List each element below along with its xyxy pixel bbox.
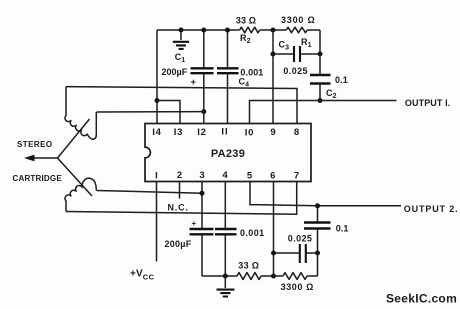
svg-text:R1: R1 (301, 37, 312, 49)
label 0.001 (top) (240, 67, 263, 77)
label R1 (301, 37, 312, 49)
svg-text:7: 7 (294, 171, 299, 182)
svg-text:C3: C3 (279, 40, 290, 52)
label C1 (175, 52, 186, 64)
wire: output 2 line from pin 5 (250, 182, 401, 206)
inductor: cartridge bottom coil (65, 178, 96, 211)
svg-text:OUTPUT 2.: OUTPUT 2. (404, 204, 459, 214)
node: bottom rail dot at pin4/ground (223, 274, 228, 279)
wire: pin 1 to +Vcc (156, 182, 158, 262)
capacitor C2 0.1 plates (310, 75, 331, 84)
label 0.025 (top) (283, 66, 308, 76)
svg-text:3300 Ω: 3300 Ω (281, 15, 316, 25)
node: rail dot at C4 (225, 28, 230, 33)
wire: pin 2 stub N.C. (179, 182, 181, 199)
label OUTPUT 1 (405, 98, 450, 108)
node: bottom rail dot at pin 6 (271, 274, 276, 279)
pin 10 number (245, 128, 255, 139)
wire: C4 / pin 11 vertical (227, 30, 229, 124)
cartridge stylus diagonal (upper) (58, 119, 90, 158)
svg-text:6: 6 (270, 171, 275, 182)
svg-text:STEREO: STEREO (17, 140, 53, 149)
label 200uF (bottom) (165, 239, 192, 249)
svg-text:4: 4 (222, 170, 228, 181)
pin 2 number (177, 170, 182, 181)
node: output 2 dot (315, 203, 320, 208)
svg-text:33 Ω: 33 Ω (236, 16, 256, 26)
capacitor C1 200uF plates (191, 68, 214, 73)
svg-text:SeekIC.com: SeekIC.com (386, 292, 457, 306)
label C3 (279, 40, 290, 52)
label +Vcc (130, 269, 155, 282)
capacitor 0.1 (ch2) plates (304, 223, 331, 229)
svg-text:33 Ω: 33 Ω (238, 260, 259, 270)
wire: 0.1 (ch2) vertical riser (317, 206, 319, 276)
wire: bottom ground rail (202, 275, 318, 277)
pin 14 number (152, 127, 162, 138)
IC U1 PA239 body (145, 124, 311, 182)
wire: C2 vertical (319, 54, 321, 101)
wire: C1 / pin 12 vertical (203, 30, 205, 124)
svg-text:+: + (191, 77, 197, 88)
watermark SeekIC.com (386, 292, 457, 306)
capacitor C3 0.025 plates (294, 46, 300, 62)
svg-text:C2: C2 (326, 88, 337, 100)
svg-text:II: II (221, 127, 228, 138)
label 0.1 (top) (335, 75, 348, 85)
ground (bottom) (217, 276, 235, 297)
wire: C3 horizontal leads (273, 53, 320, 55)
node: output 1 dot at C2 (318, 98, 323, 103)
pin 1 number (155, 170, 158, 181)
inductor: cartridge top coil (65, 87, 96, 140)
resistor R1 3300ohm zigzag (286, 27, 307, 32)
node: pin 6 dot at 0.025 branch (271, 251, 276, 256)
svg-text:I0: I0 (245, 128, 255, 139)
wire C: cartridge to pin 3 node (97, 191, 203, 194)
label CARTRIDGE (13, 174, 63, 183)
resistor 33ohm (ch2) zigzag (237, 273, 261, 280)
svg-text:0.025: 0.025 (288, 234, 313, 244)
pin 12 number (197, 127, 207, 138)
svg-text:3300 Ω: 3300 Ω (281, 282, 314, 292)
node: C3 right dot (318, 52, 323, 57)
label C2 (326, 88, 337, 100)
pin 5 number (247, 171, 253, 182)
wire: R1 right lead down (319, 30, 321, 54)
svg-text:5: 5 (247, 171, 253, 182)
wire B: cartridge to pin 12 node (97, 111, 204, 113)
pin 9 number (270, 127, 275, 138)
op-amp U1 label PA239 (211, 148, 245, 160)
wire: pin 9 vertical (272, 30, 274, 124)
pin 6 number (270, 171, 275, 182)
label 200uF (top) (162, 67, 188, 77)
svg-text:I3: I3 (174, 127, 184, 138)
capacitor 0.025 (ch2) plates (300, 244, 306, 263)
pin 13 number (174, 127, 184, 138)
wire: pin 3 vertical to 200uF (201, 182, 203, 277)
svg-text:0.025: 0.025 (283, 66, 308, 76)
node: rail dot at ground stub (179, 28, 184, 33)
label OUTPUT 2 (404, 204, 459, 214)
svg-text:CARTRIDGE: CARTRIDGE (13, 174, 63, 183)
svg-text:N.C.: N.C. (168, 203, 189, 213)
pin 8 number (294, 127, 299, 138)
capacitor 0.001 (ch2) plates (215, 229, 237, 234)
resistor R2 33ohm zigzag (240, 27, 260, 33)
svg-text:PA239: PA239 (211, 148, 245, 160)
svg-text:+VCC: +VCC (130, 269, 155, 282)
wire: pin 14 vertical from rail (156, 30, 158, 124)
pin 7 number (294, 171, 299, 182)
node: C3 left dot (271, 52, 276, 57)
svg-text:8: 8 (294, 127, 299, 138)
pin 11 number (221, 127, 228, 138)
svg-text:C4: C4 (239, 77, 250, 89)
label 0.025 (bottom) (288, 234, 313, 244)
wire: top ground rail (157, 29, 320, 31)
node A: feedback node (pin 9) (271, 28, 276, 33)
label 0.1 (bottom) (336, 224, 349, 234)
svg-text:2: 2 (177, 170, 182, 181)
resistor 3300ohm (ch2) zigzag (283, 273, 307, 280)
svg-text:OUTPUT I.: OUTPUT I. (405, 98, 450, 108)
wire: 0.025 branch horizontal (ch2) (274, 252, 318, 254)
svg-text:I4: I4 (152, 127, 162, 138)
svg-text:9: 9 (270, 127, 275, 138)
label R2 (240, 33, 251, 45)
node: pin 3 dot (wire C joint) (200, 191, 205, 196)
svg-text:0.1: 0.1 (336, 224, 349, 234)
cartridge stylus diagonal (lower) (58, 158, 93, 196)
node: 0.025 right dot (315, 251, 320, 256)
label 0.001 (bottom) (240, 228, 265, 238)
wire: pin 6 vertical (273, 182, 275, 277)
svg-text:C1: C1 (175, 52, 186, 64)
label STEREO (17, 140, 53, 149)
label 3300ohm (top) (281, 15, 316, 25)
svg-text:I: I (155, 170, 158, 181)
svg-text:0.001: 0.001 (240, 228, 265, 238)
label C4 (239, 77, 250, 89)
stereo cartridge arrow (24, 155, 58, 162)
node: C1 line dot (cartridge wire B joint) (201, 109, 206, 114)
svg-text:200µF: 200µF (165, 239, 192, 249)
wire: branch to pin 13 (157, 101, 180, 124)
capacitor C4 0.001 plates (217, 68, 239, 73)
label N.C. (168, 203, 189, 213)
label + polarity (ch2 200uF) (192, 219, 197, 228)
node: junction pin14/pin13 branch (155, 98, 160, 103)
label + polarity C1 (191, 77, 197, 88)
label 33ohm (top) (236, 16, 256, 26)
ground (top, below rail) (173, 30, 189, 49)
svg-text:200µF: 200µF (162, 67, 188, 77)
svg-text:+: + (192, 219, 197, 228)
pin 4 number (222, 170, 228, 181)
svg-text:R2: R2 (240, 33, 251, 45)
capacitor 200uF (ch2) plates (190, 229, 214, 234)
svg-text:3: 3 (199, 170, 204, 181)
svg-text:0.1: 0.1 (335, 75, 348, 85)
label 33ohm (bottom) (238, 260, 259, 270)
wire: output 1 line from pin 10 (250, 101, 397, 124)
pin 3 number (199, 170, 204, 181)
label 3300ohm (bottom) (281, 282, 314, 292)
wire A: pin 8 to cartridge top (66, 87, 297, 124)
wire: pin 4 vertical to 0.001 (224, 182, 226, 277)
wire D: cartridge to pin 7 (66, 182, 297, 215)
node: rail dot at C1 (201, 28, 206, 33)
svg-text:I2: I2 (197, 127, 207, 138)
